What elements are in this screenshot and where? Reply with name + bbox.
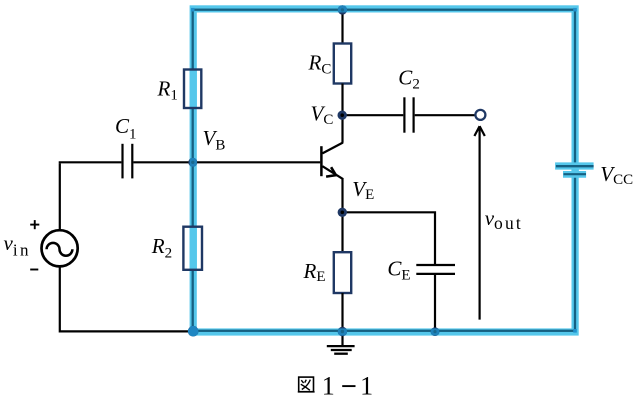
capacitor C2 (404, 97, 413, 132)
source V1 vin (AC) (42, 230, 78, 266)
svg-text:vout: vout (485, 206, 523, 233)
svg-text:R1: R1 (157, 77, 178, 104)
node VE (338, 208, 347, 217)
wire: source bottom to ground rail (60, 267, 191, 332)
battery VCC positive plate (555, 162, 594, 169)
wire: top rail to RC (341, 9, 343, 45)
wire: CE to ground rail (434, 274, 436, 332)
node: ground rail at emitter (338, 327, 347, 336)
ground (327, 331, 355, 353)
wire: VC node to C2 (343, 114, 404, 116)
node: ground rail left corner (188, 326, 199, 337)
svg-text:RE: RE (303, 259, 326, 285)
resistor R2 (183, 227, 202, 270)
svg-text:VE: VE (352, 177, 374, 203)
svg-text:CE: CE (387, 256, 410, 283)
plus sign (30, 220, 39, 229)
resistor RC (334, 44, 351, 84)
vout arrow (474, 126, 484, 319)
wire: VE to RE (341, 212, 343, 254)
transistor Q1 (321, 143, 343, 180)
node VB (188, 158, 197, 167)
minus sign (30, 269, 38, 271)
capacitor CE (416, 265, 455, 274)
node: ground rail at CE (431, 327, 440, 336)
svg-text:C1: C1 (115, 114, 137, 142)
node: top rail junction (338, 5, 347, 14)
node VC (338, 111, 347, 120)
wire: C1 to base (through node VB) (133, 161, 320, 163)
svg-text:vin: vin (4, 231, 31, 260)
battery U1 VCC gap cover (571, 166, 578, 175)
resistor R1 (184, 70, 201, 109)
svg-text:C2: C2 (398, 66, 420, 93)
svg-text:R2: R2 (151, 234, 172, 262)
svg-text:RC: RC (308, 51, 332, 78)
wire: emitter down to node VE (341, 179, 343, 214)
svg-text:1: 1 (360, 372, 373, 397)
wire: top to C1 left plate (59, 161, 122, 163)
wire: VCC power loop highlighted frame (light blue) (191, 8, 577, 333)
terminal: output (open circle) (475, 110, 485, 120)
resistor RE (334, 252, 351, 293)
capacitor C1 (123, 144, 133, 179)
battery VCC negative plate (563, 171, 586, 178)
wire: RE to ground rail (341, 293, 343, 331)
svg-text:VB: VB (203, 126, 226, 154)
svg-text:1: 1 (322, 372, 335, 397)
wire: input source to C1 (top) (59, 163, 61, 230)
wire: C2 to output terminal (415, 114, 475, 116)
svg-text:VC: VC (311, 101, 334, 128)
wire: RC to collector (341, 84, 343, 143)
wire: VE node to CE branch (343, 212, 436, 264)
svg-text:VCC: VCC (600, 162, 633, 188)
caption: figure 1-1 (298, 372, 373, 397)
